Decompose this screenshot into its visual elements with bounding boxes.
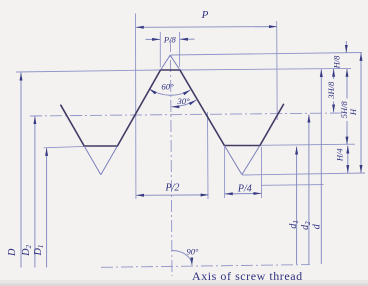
svg-text:Axis of screw thread: Axis of screw thread bbox=[192, 269, 303, 283]
right root flat bbox=[224, 145, 260, 147]
5H/8 lower segment (arrow down to root flat) bbox=[346, 121, 348, 145]
H/8 outside arrow above apex line bbox=[345, 41, 347, 53]
svg-text:H/4: H/4 bbox=[335, 148, 345, 163]
P/2 right extension line bbox=[207, 112, 210, 199]
H overall dimension bbox=[360, 53, 362, 173]
left sharp root V left side bbox=[84, 146, 101, 175]
thread centerline (dash-dot vertical) bbox=[170, 40, 172, 276]
crest flat bbox=[161, 69, 180, 71]
crest level line left bbox=[16, 70, 161, 72]
root flat extension right bbox=[260, 144, 355, 145]
svg-text:P/4: P/4 bbox=[237, 184, 252, 195]
left flank bbox=[61, 105, 84, 146]
crest level line right bbox=[180, 68, 351, 70]
svg-text:60°: 60° bbox=[161, 82, 174, 92]
P/4 left extension line bbox=[224, 147, 226, 198]
90 degree arc at axis bbox=[172, 250, 192, 265]
apex level extension line bbox=[171, 53, 362, 56]
dimension d vertical with arrow bbox=[320, 69, 322, 264]
dimension P/4 bbox=[225, 192, 261, 195]
dimension 3H/8 lower segment bbox=[333, 102, 335, 113]
svg-text:3H/8: 3H/8 bbox=[326, 81, 336, 100]
svg-text:P: P bbox=[201, 9, 209, 21]
svg-text:H/8: H/8 bbox=[332, 55, 342, 70]
P/8 left extension line bbox=[159, 32, 161, 67]
dimension 3H/8 upper segment bbox=[333, 69, 335, 79]
root flat extension left bbox=[44, 146, 85, 147]
dimension D2 vertical with arrow bbox=[34, 116, 36, 267]
P/8 outside arrow left bbox=[146, 38, 161, 40]
right rising flank bbox=[260, 104, 284, 145]
thread profile (thick) bbox=[61, 70, 284, 146]
dimension P horizontal bbox=[136, 26, 277, 29]
H/4 dimension segment bbox=[347, 146, 349, 173]
svg-text:H: H bbox=[348, 108, 358, 116]
svg-text:30°: 30° bbox=[176, 96, 190, 106]
dimension D1 vertical with arrow bbox=[46, 148, 48, 268]
left root flat bbox=[84, 145, 117, 147]
connector line at y=185 bbox=[262, 184, 324, 187]
svg-text:P/8: P/8 bbox=[163, 35, 177, 45]
right sharp root V left side bbox=[224, 146, 242, 175]
P/8 outside arrow right bbox=[180, 38, 195, 40]
right sharp root V right side bbox=[242, 146, 260, 175]
dimension d1 vertical with arrow bbox=[296, 147, 298, 264]
svg-text:D: D bbox=[7, 248, 18, 257]
sharp root extension line bbox=[242, 173, 365, 175]
svg-text:90°: 90° bbox=[187, 247, 200, 257]
60 degree arc bbox=[149, 89, 190, 95]
fundamental triangle thin lines bbox=[84, 55, 260, 175]
P/8 right extension line bbox=[179, 32, 181, 67]
P right extension line bbox=[276, 21, 279, 120]
axis of thread (dash-dot) bbox=[101, 265, 310, 268]
left-to-crest flank bbox=[117, 70, 160, 146]
dimension D vertical with arrow bbox=[20, 73, 22, 268]
P left extension line bbox=[135, 14, 137, 200]
P/4 right extension line bbox=[261, 147, 263, 198]
5H/8 upper segment (arrow up to crest) bbox=[346, 69, 348, 99]
crest-to-right-root flank bbox=[180, 70, 225, 146]
left sharp root V right side bbox=[101, 146, 118, 175]
apex triangle left side bbox=[161, 55, 171, 70]
30 degree arc bbox=[171, 100, 196, 107]
pitch line (dash-dot) bbox=[30, 113, 344, 116]
apex triangle right side bbox=[170, 55, 180, 70]
dimension d2 vertical with arrow bbox=[308, 115, 310, 264]
svg-text:P/2: P/2 bbox=[165, 183, 180, 194]
dimension P/2 bbox=[136, 194, 208, 196]
